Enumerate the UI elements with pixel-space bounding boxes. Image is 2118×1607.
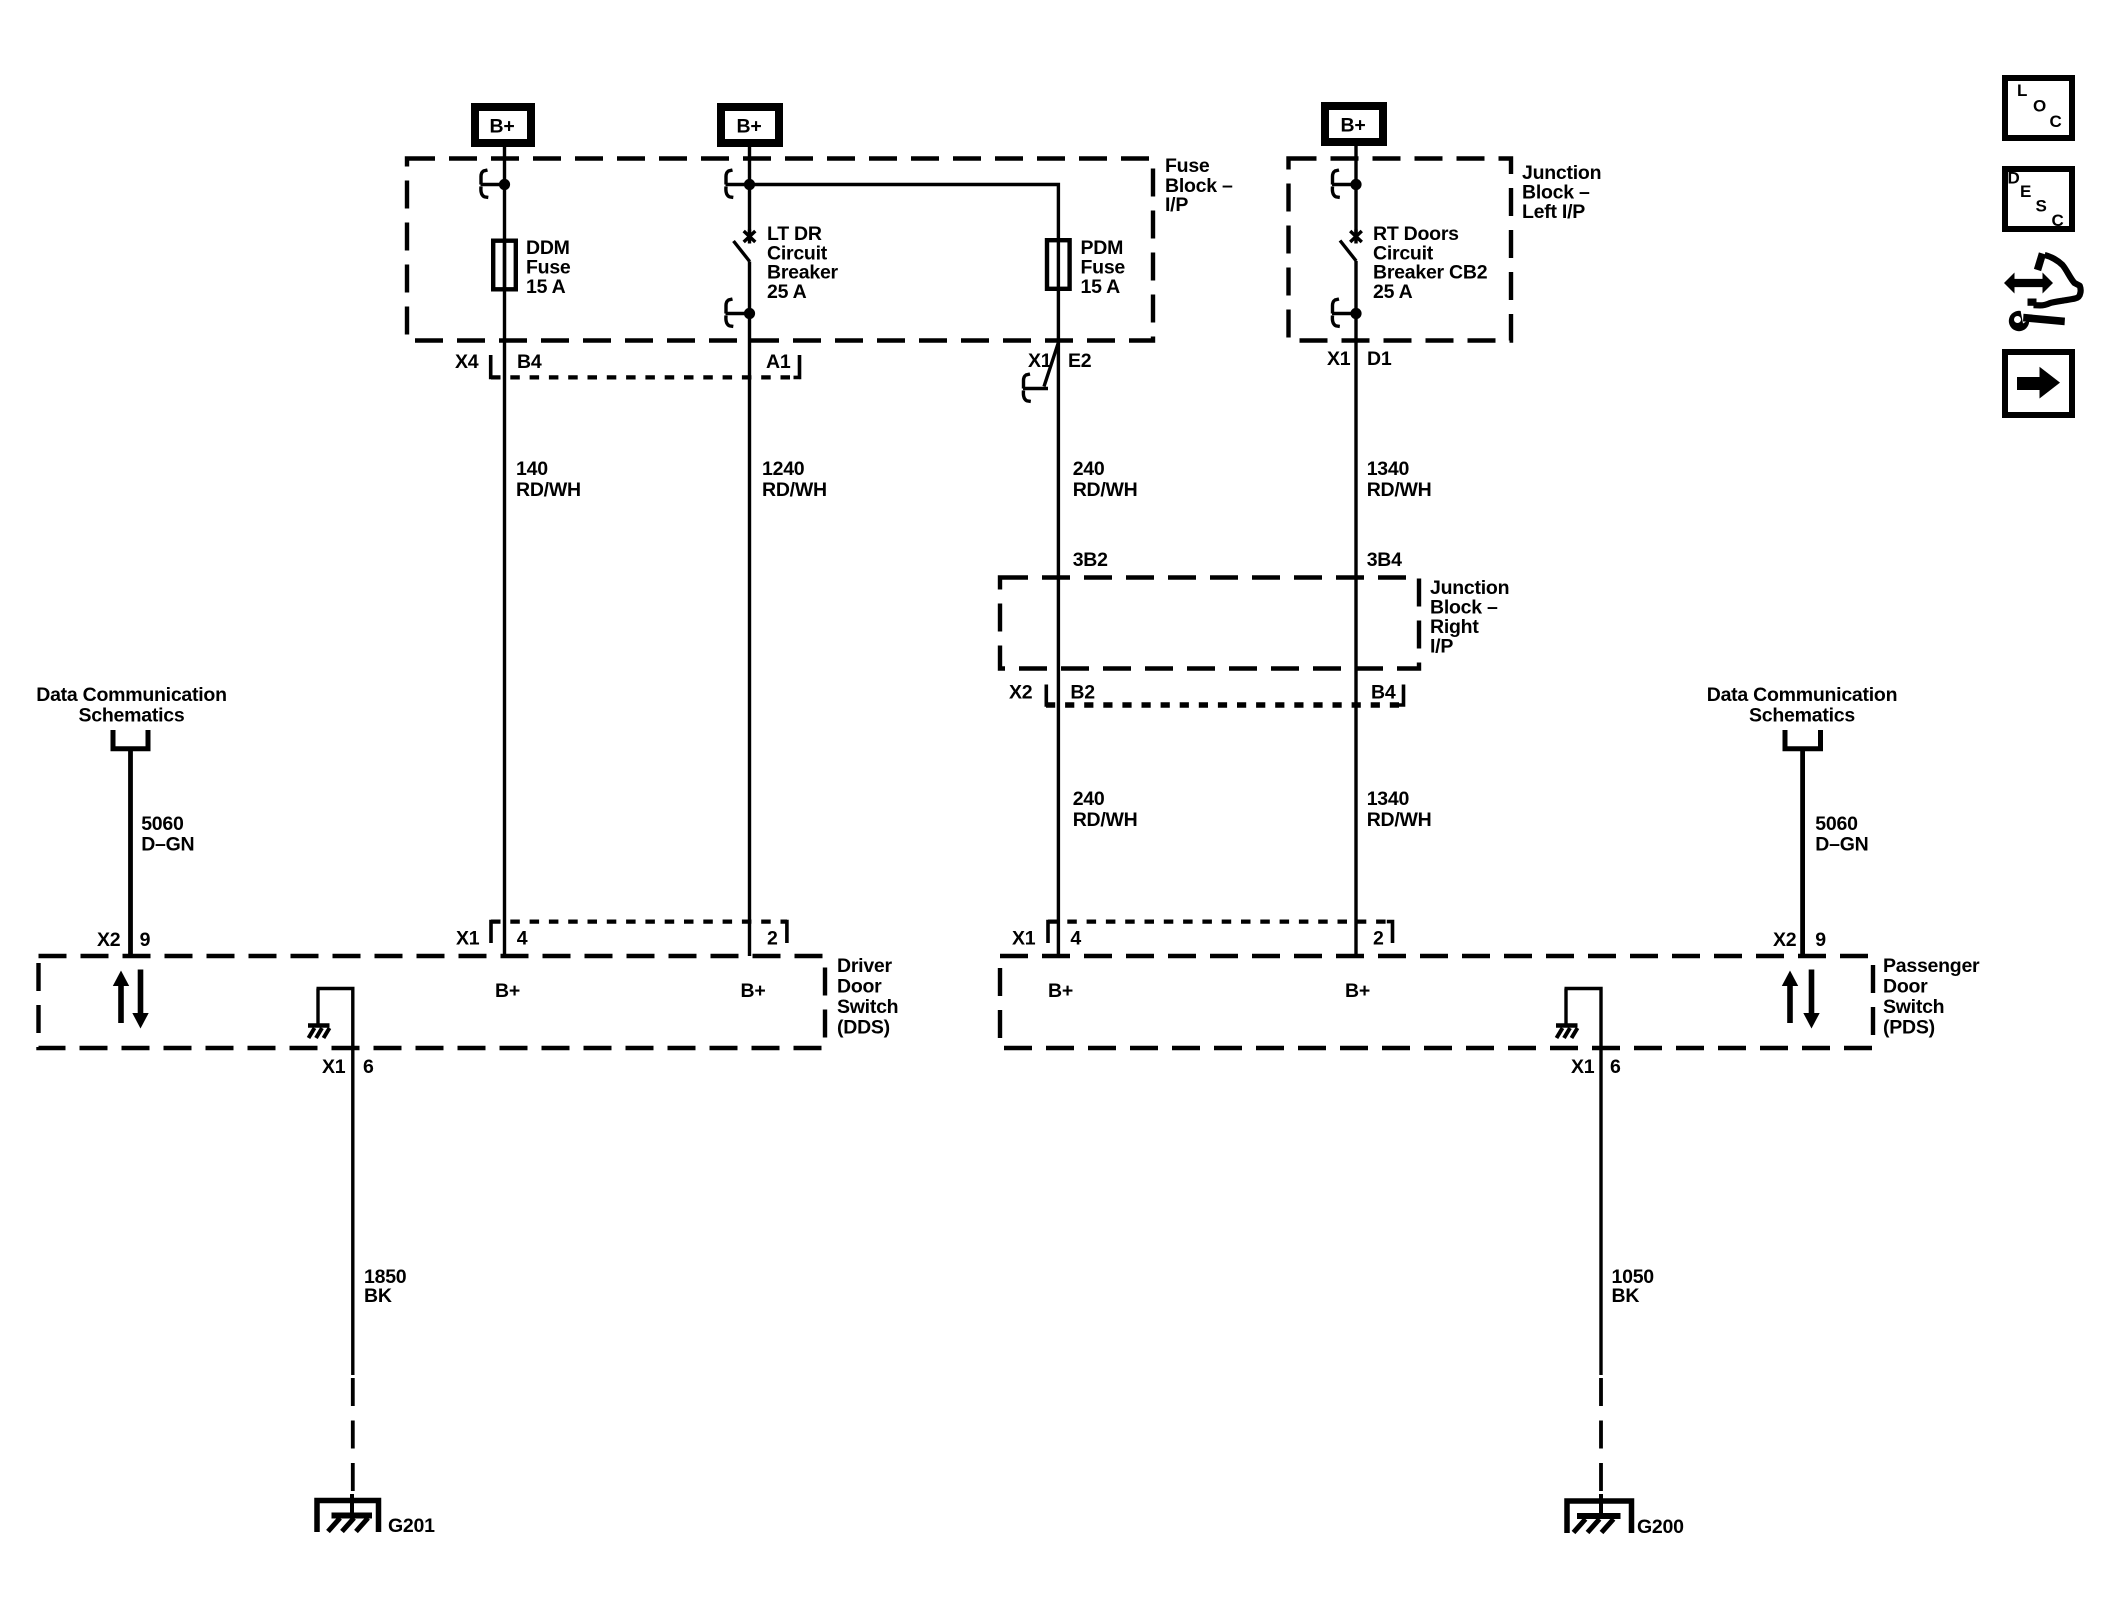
svg-text:C: C — [2050, 112, 2062, 131]
svg-text:9: 9 — [1815, 929, 1826, 951]
svg-text:RD/WH: RD/WH — [1367, 809, 1432, 831]
svg-text:B+: B+ — [490, 116, 515, 138]
svg-text:(DDS): (DDS) — [837, 1017, 890, 1039]
svg-text:5060: 5060 — [1815, 813, 1858, 835]
terminal clip on wire 1340 bottom — [1332, 299, 1362, 326]
terminal clip on wire 1240 top — [726, 170, 756, 197]
labels X1 4 2 (DDS) — [456, 927, 778, 949]
svg-text:RD/WH: RD/WH — [516, 479, 581, 501]
svg-text:B+: B+ — [1341, 115, 1366, 137]
svg-text:3B2: 3B2 — [1073, 549, 1108, 571]
svg-text:RD/WH: RD/WH — [1073, 809, 1138, 831]
in-line connector X1/E2 — [1023, 343, 1058, 402]
Data Communication Schematics label right — [1707, 684, 1898, 727]
Junction Block - Left I/P dashed box — [1289, 159, 1512, 341]
label Junction Block - Right I/P — [1430, 577, 1509, 658]
wire 1850 BK dashed — [351, 1378, 355, 1496]
connector row PDS X1 pins dotted line — [1048, 919, 1393, 923]
bracket right A1 — [794, 355, 800, 377]
svg-text:X1: X1 — [1012, 927, 1036, 949]
pin labels B+ (DDS) — [495, 980, 765, 1002]
wire 1850 BK solid — [351, 1048, 354, 1375]
connector row X2/B2/B4 dotted line — [1046, 702, 1404, 708]
svg-text:E2: E2 — [1068, 350, 1092, 372]
wire label 1340 RD/WH upper — [1367, 458, 1432, 501]
svg-text:B+: B+ — [495, 980, 520, 1002]
wire 240 RD/WH vertical — [1057, 289, 1060, 956]
svg-text:6: 6 — [363, 1056, 374, 1078]
svg-text:RD/WH: RD/WH — [762, 479, 827, 501]
wire below LT DR breaker — [748, 262, 751, 957]
icon wiring repair (double arrow, outline, wrench) — [2004, 254, 2081, 332]
B+ power symbol 1 — [475, 107, 531, 143]
pin labels B+ (PDS) — [1048, 980, 1370, 1002]
wire 1240 RD/WH vertical (LT DR breaker) upper — [748, 147, 751, 237]
off-page bracket right — [1785, 730, 1821, 749]
labels X1 E2 — [1028, 350, 1092, 372]
svg-text:Fuse: Fuse — [1165, 155, 1210, 177]
svg-text:D: D — [2008, 169, 2020, 188]
PDM fuse symbol — [1047, 240, 1070, 289]
label Junction Block - Left I/P — [1522, 162, 1601, 223]
terminal clip on wire 1340 top — [1332, 170, 1362, 197]
labels X4 B4 A1 — [455, 351, 791, 373]
label PDM Fuse 15 A — [1081, 237, 1126, 298]
connector row DDS X1 pins dotted line — [491, 919, 787, 923]
svg-text:A1: A1 — [766, 351, 791, 373]
svg-text:X1: X1 — [456, 927, 480, 949]
B+ power symbol 3 — [1325, 106, 1383, 142]
chassis ground symbol inside DDS — [308, 1026, 330, 1039]
label Fuse Block - I/P — [1165, 155, 1233, 216]
wire 5060 D-GN right — [1800, 750, 1805, 956]
svg-text:S: S — [2036, 197, 2047, 216]
svg-text:X2: X2 — [1773, 929, 1797, 951]
circuit breaker LT DR contact star — [744, 230, 756, 244]
svg-text:BK: BK — [1612, 1285, 1640, 1307]
svg-text:B4: B4 — [1371, 682, 1396, 704]
wire 5060 D-GN left — [128, 750, 133, 956]
svg-text:B+: B+ — [741, 980, 766, 1002]
icon LOC box — [2005, 78, 2072, 138]
svg-text:O: O — [2033, 97, 2046, 116]
bracket left X2 — [1046, 685, 1052, 706]
Passenger Door Switch dashed box — [1000, 956, 1873, 1048]
svg-text:25 A: 25 A — [767, 281, 807, 303]
svg-text:4: 4 — [517, 927, 528, 949]
svg-text:Passenger: Passenger — [1883, 955, 1980, 977]
B+ power symbol 2 — [721, 107, 779, 143]
ground G200 — [1567, 1494, 1632, 1533]
labels X2 9 (DDS) — [97, 929, 151, 951]
connector row X4/B4/A1 dotted line — [491, 375, 800, 379]
terminal clip on wire 1240 bottom — [726, 299, 756, 326]
svg-text:B4: B4 — [517, 351, 542, 373]
labels X1 4 2 (PDS) — [1012, 927, 1384, 949]
svg-text:RD/WH: RD/WH — [1073, 479, 1138, 501]
bracket left PDS X1 — [1048, 922, 1054, 943]
window up arrow (DDS) — [113, 971, 129, 1024]
wire 1340 RD/WH vertical (RT Doors breaker) upper — [1354, 146, 1357, 237]
svg-text:X2: X2 — [97, 929, 121, 951]
circuit breaker LT DR blade — [734, 241, 750, 262]
svg-text:240: 240 — [1073, 458, 1105, 480]
svg-text:Switch: Switch — [1883, 996, 1944, 1018]
svg-text:Schematics: Schematics — [79, 705, 185, 727]
svg-text:4: 4 — [1070, 927, 1081, 949]
svg-text:Data Communication: Data Communication — [1707, 684, 1898, 706]
svg-text:25 A: 25 A — [1373, 281, 1413, 303]
ground wire inside DDS — [317, 989, 353, 1049]
wire 140 RD/WH vertical (DDM feed) — [503, 147, 506, 956]
circuit breaker RT Doors contact star — [1350, 230, 1362, 244]
Fuse Block - I/P dashed box — [407, 159, 1153, 341]
icon forward arrow box — [2005, 352, 2072, 415]
svg-text:Left I/P: Left I/P — [1522, 201, 1585, 223]
svg-text:3B4: 3B4 — [1367, 549, 1402, 571]
svg-text:9: 9 — [140, 929, 151, 951]
svg-text:X1: X1 — [1327, 348, 1351, 370]
svg-text:X2: X2 — [1009, 682, 1033, 704]
svg-text:2: 2 — [767, 927, 778, 949]
wire below RT Doors breaker — [1354, 261, 1357, 956]
svg-text:Schematics: Schematics — [1749, 705, 1855, 727]
svg-text:6: 6 — [1610, 1056, 1621, 1078]
ground wire inside PDS — [1565, 989, 1602, 1049]
DDM fuse symbol — [493, 241, 516, 290]
svg-text:Door: Door — [1883, 976, 1928, 998]
labels X2 9 (PDS) — [1773, 929, 1826, 951]
svg-text:L: L — [2017, 81, 2027, 100]
labels X1 6 (DDS ground pin) — [322, 1056, 374, 1078]
wire label 1340 RD/WH lower — [1367, 788, 1432, 831]
label RT Doors Circuit Breaker CB2 25 A — [1373, 223, 1488, 303]
svg-text:I/P: I/P — [1430, 636, 1453, 658]
ground G201 — [317, 1494, 379, 1532]
wire label 140 RD/WH — [516, 458, 581, 501]
svg-text:Driver: Driver — [837, 955, 893, 977]
Data Communication Schematics label left — [36, 684, 227, 727]
svg-text:140: 140 — [516, 458, 548, 480]
label 1850 BK — [364, 1266, 407, 1307]
label 1050 BK — [1612, 1266, 1655, 1307]
bracket right PDS X1 — [1387, 922, 1393, 943]
Driver Door Switch dashed box — [39, 956, 826, 1048]
window down arrow (DDS) — [132, 970, 148, 1029]
label 5060 D-GN left — [141, 813, 194, 856]
terminal clip on wire 140 — [481, 170, 511, 197]
svg-text:1340: 1340 — [1367, 458, 1410, 480]
svg-text:C: C — [2052, 211, 2064, 230]
label LT DR Circuit Breaker 25 A — [767, 223, 839, 303]
wire label 240 RD/WH upper — [1073, 458, 1138, 501]
svg-text:I/P: I/P — [1165, 194, 1188, 216]
icon DESC box — [2005, 169, 2072, 231]
wire label 1240 RD/WH — [762, 458, 827, 501]
labels X1 D1 — [1327, 348, 1392, 370]
svg-text:D–GN: D–GN — [141, 834, 194, 856]
label DDM Fuse 15 A — [526, 237, 571, 298]
svg-text:2: 2 — [1373, 927, 1384, 949]
labels X1 6 (PDS ground pin) — [1571, 1056, 1621, 1078]
svg-text:15 A: 15 A — [1081, 276, 1121, 298]
bracket left X4 — [491, 355, 497, 377]
svg-text:E: E — [2020, 182, 2031, 201]
svg-text:Door: Door — [837, 976, 882, 998]
wire 1050 BK dashed — [1599, 1378, 1603, 1496]
label Passenger Door Switch (PDS) — [1883, 955, 1980, 1039]
bracket right DDS X1 — [781, 922, 787, 943]
svg-text:RD/WH: RD/WH — [1367, 479, 1432, 501]
window down arrow (PDS) — [1803, 970, 1819, 1029]
circuit breaker RT Doors blade — [1340, 241, 1356, 262]
chassis ground symbol inside PDS — [1556, 1026, 1578, 1039]
Junction Block - Right I/P dashed box — [1000, 578, 1419, 669]
svg-text:X1: X1 — [1571, 1056, 1595, 1078]
svg-text:Switch: Switch — [837, 996, 898, 1018]
svg-text:G201: G201 — [388, 1515, 435, 1537]
svg-text:BK: BK — [364, 1285, 392, 1307]
label 5060 D-GN right — [1815, 813, 1868, 856]
bracket right B4 — [1398, 685, 1404, 706]
svg-text:X1: X1 — [1028, 350, 1052, 372]
svg-text:B+: B+ — [1048, 980, 1073, 1002]
svg-text:240: 240 — [1073, 788, 1105, 810]
svg-text:B+: B+ — [1345, 980, 1370, 1002]
off-page bracket left — [113, 730, 148, 749]
svg-text:(PDS): (PDS) — [1883, 1017, 1935, 1039]
svg-text:5060: 5060 — [141, 813, 184, 835]
svg-text:X4: X4 — [455, 351, 479, 373]
svg-text:B2: B2 — [1070, 682, 1095, 704]
svg-text:D–GN: D–GN — [1815, 834, 1868, 856]
label Driver Door Switch (DDS) — [837, 955, 898, 1039]
labels X2 B2 B4 — [1009, 682, 1396, 704]
svg-text:Data Communication: Data Communication — [36, 684, 227, 706]
window up arrow (PDS) — [1782, 971, 1798, 1024]
svg-text:D1: D1 — [1367, 348, 1392, 370]
svg-text:G200: G200 — [1637, 1516, 1684, 1538]
svg-text:15 A: 15 A — [526, 276, 566, 298]
svg-text:X1: X1 — [322, 1056, 346, 1078]
bracket left DDS X1 — [491, 922, 497, 943]
svg-text:1340: 1340 — [1367, 788, 1410, 810]
svg-text:1240: 1240 — [762, 458, 805, 480]
svg-text:B+: B+ — [737, 116, 762, 138]
wire label 240 RD/WH lower — [1073, 788, 1138, 831]
wire branch to PDM fuse — [750, 185, 1059, 239]
wire 1050 BK solid — [1599, 1048, 1602, 1375]
